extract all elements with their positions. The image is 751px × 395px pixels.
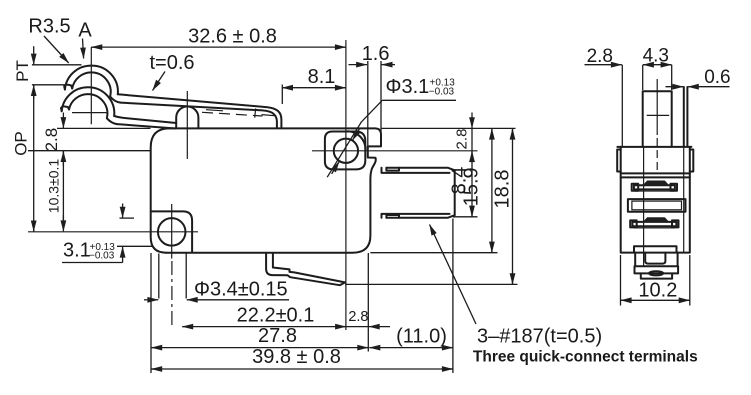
OP level extension line (left) xyxy=(28,150,151,152)
body top edge xyxy=(617,146,691,148)
dim 10.2 xyxy=(620,255,622,306)
A position centerline xyxy=(90,47,92,124)
plunger centerline xyxy=(186,91,188,159)
lever strip edge (0.6 thick) xyxy=(683,87,685,147)
svg-text:2.8: 2.8 xyxy=(348,309,368,325)
lever lower curl inner arc xyxy=(69,94,117,124)
lever lower strip bottom line xyxy=(117,124,176,128)
dim 32.6±0.8 xyxy=(91,46,94,48)
ext lines 2.8/4.3 xyxy=(621,65,623,146)
top-right mounting hole boss xyxy=(325,132,365,170)
lever hidden edge short dash xyxy=(206,110,223,111)
internal projection lines xyxy=(643,148,645,267)
dim 8.4 xyxy=(471,151,473,154)
dim dia3.4±0.15 (outside arrows) xyxy=(158,254,160,299)
svg-text:2.8: 2.8 xyxy=(587,46,613,67)
plunger button xyxy=(176,107,198,129)
terminal end extension down to dims xyxy=(452,219,454,374)
body left edge extension down to dims xyxy=(150,253,152,373)
dim 10.3±0.1 xyxy=(62,151,64,228)
svg-text:32.6 ± 0.8: 32.6 ± 0.8 xyxy=(188,26,277,48)
svg-text:(11.0): (11.0) xyxy=(396,326,447,348)
lever column (4.3 wide) xyxy=(643,91,672,147)
svg-text:3–#187(t=0.5): 3–#187(t=0.5) xyxy=(477,326,602,348)
dim 27.8 xyxy=(151,347,154,349)
svg-text:−0.03: −0.03 xyxy=(429,87,455,98)
terminal crimp tab bottom xyxy=(386,215,399,218)
svg-text:R3.5: R3.5 xyxy=(28,16,70,38)
bottom hole centerline extension (dashed) down to 22.2 dim xyxy=(171,261,173,327)
terminal bar 2 (edge view) xyxy=(632,222,676,226)
svg-text:8.1: 8.1 xyxy=(308,66,336,88)
PT extension lines xyxy=(32,64,82,66)
svg-text:3.1: 3.1 xyxy=(63,240,91,262)
top hole vertical centerline (extends to 32.6/8.1 dims and bottom dims) xyxy=(345,40,347,330)
dim 2.8 (right stack) xyxy=(471,113,473,129)
dim (11.0) xyxy=(369,347,372,349)
svg-text:t=0.6: t=0.6 xyxy=(150,52,195,74)
mounting hole (dia 3.4) xyxy=(158,218,186,246)
bottom hole vertical centerline xyxy=(171,204,173,259)
svg-text:39.8 ± 0.8: 39.8 ± 0.8 xyxy=(252,346,341,368)
dim 2.8 (left, body top to OP line) xyxy=(62,113,64,129)
lever lower strip top line to plunger xyxy=(114,116,176,123)
lever lower curl outer arc (operating position) xyxy=(62,87,115,116)
lever lower curl end cap xyxy=(61,106,69,111)
terminal crimp tab top xyxy=(386,168,399,171)
top of body extension line (left and right) xyxy=(57,127,151,129)
svg-text:−0.03: −0.03 xyxy=(89,251,115,262)
OP dimension xyxy=(33,228,35,231)
right side tab xyxy=(690,150,694,172)
terminal bar 1 (edge view) xyxy=(634,185,675,189)
lever bottom line (free position) to hook xyxy=(121,103,277,129)
svg-text:22.2±0.1: 22.2±0.1 xyxy=(237,305,315,327)
bottom terminal 3 (edge view) xyxy=(635,253,677,267)
svg-text:10.3±0.1: 10.3±0.1 xyxy=(46,159,62,214)
svg-text:15.9: 15.9 xyxy=(461,167,483,206)
lever hidden edge (dashed) xyxy=(202,112,263,116)
svg-text:1.6: 1.6 xyxy=(362,43,390,65)
recessed band xyxy=(628,199,686,212)
lever upper curl outer arc (free position, R3.5) xyxy=(65,66,118,95)
svg-text:27.8: 27.8 xyxy=(258,325,297,347)
bottom inset line xyxy=(634,246,677,252)
dim 15.9 xyxy=(491,129,493,132)
boss corner blend arc xyxy=(348,131,366,149)
dim 18.8 xyxy=(512,129,514,132)
svg-text:Three quick-connect terminals: Three quick-connect terminals xyxy=(473,349,698,366)
svg-text:0.6: 0.6 xyxy=(704,67,730,88)
svg-text:2.8: 2.8 xyxy=(454,129,471,150)
ext lines 1.6 xyxy=(367,61,369,146)
svg-text:Φ3.1: Φ3.1 xyxy=(386,76,430,98)
common terminal top inner line xyxy=(382,168,450,173)
lever upper curl inner arc xyxy=(72,72,120,102)
dim 1.6 (outside arrows) xyxy=(349,64,368,66)
lower curl center tick xyxy=(72,112,107,114)
bottom diagonal terminal xyxy=(273,253,345,282)
left side tab xyxy=(617,150,621,172)
dim 39.8±0.8 xyxy=(151,368,154,370)
dim 0.6 (outside arrows) xyxy=(666,86,684,88)
svg-text:10.2: 10.2 xyxy=(638,280,677,302)
lever top line (free position) to hook xyxy=(118,94,282,128)
body right edge extension down to dims xyxy=(367,253,369,352)
bottom-left mounting hole boss xyxy=(151,211,192,251)
svg-text:OP: OP xyxy=(11,131,30,156)
right view centerline xyxy=(656,79,658,135)
dim 2.8 (small, hole center to body edge) xyxy=(346,326,368,328)
ext line for 8.1 at lever hook xyxy=(281,85,283,105)
bottom hole horizontal centerline / OP reference to left dims xyxy=(28,231,198,233)
svg-text:Φ3.4±0.15: Φ3.4±0.15 xyxy=(194,279,288,301)
label dia3.1 +0.13/-0.03 with leader xyxy=(327,122,361,177)
common terminal (right side) outline xyxy=(386,168,454,218)
svg-text:2.8: 2.8 xyxy=(42,128,61,152)
lever upper curl end cap xyxy=(64,85,72,90)
dim 3.1 +0.13/-0.03 (bottom hole vertical) xyxy=(120,217,135,219)
svg-text:4.3: 4.3 xyxy=(643,46,669,67)
body sides xyxy=(621,147,690,253)
body left edge and corners xyxy=(151,128,170,252)
dim 2.8 (right view) xyxy=(585,64,622,66)
PT dimension arrows xyxy=(33,46,35,64)
right side extension lines xyxy=(453,216,478,218)
dim 4.3 xyxy=(643,64,646,66)
leader 3-#187 terminals xyxy=(430,225,477,325)
svg-text:18.8: 18.8 xyxy=(491,170,513,209)
common terminal bottom inner line xyxy=(382,214,450,218)
switch body outline xyxy=(166,128,381,252)
dim 22.2±0.1 xyxy=(182,326,186,328)
svg-text:A: A xyxy=(78,19,92,41)
dim 8.1 xyxy=(282,87,285,89)
hinge point tick xyxy=(255,108,256,117)
lever hidden edge at hook xyxy=(262,115,277,116)
mounting hole (dia 3.1) xyxy=(334,139,358,163)
cover seam lines xyxy=(621,172,690,174)
svg-text:PT: PT xyxy=(13,60,32,82)
top hole horizontal centerline (extends right for 2.8/8.4 dims) xyxy=(312,150,478,152)
